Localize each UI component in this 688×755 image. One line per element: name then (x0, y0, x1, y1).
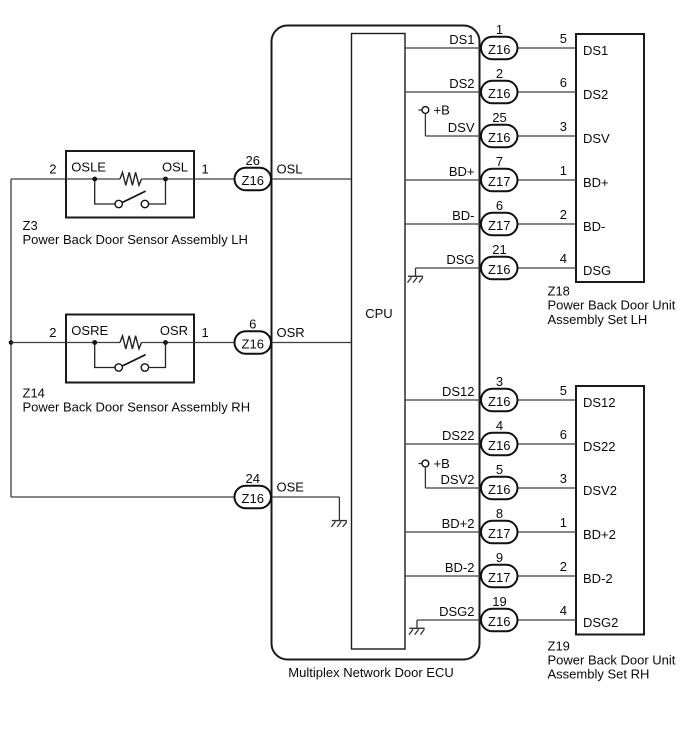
svg-text:25: 25 (492, 110, 506, 125)
svg-text:26: 26 (246, 153, 260, 168)
svg-text:7: 7 (496, 154, 503, 169)
svg-text:Multiplex Network Door ECU: Multiplex Network Door ECU (288, 665, 453, 680)
svg-text:DSV: DSV (448, 120, 475, 135)
svg-text:Z14: Z14 (23, 386, 45, 401)
svg-text:+B: +B (434, 103, 450, 118)
svg-text:DS2: DS2 (583, 87, 608, 102)
svg-text:OSL: OSL (162, 160, 188, 175)
svg-text:BD-: BD- (452, 208, 474, 223)
svg-text:Z16: Z16 (488, 86, 510, 101)
svg-text:DSG: DSG (583, 263, 611, 278)
svg-text:OSL: OSL (277, 162, 303, 177)
svg-text:DS12: DS12 (442, 384, 475, 399)
svg-text:Z3: Z3 (23, 218, 38, 233)
svg-text:1: 1 (202, 162, 209, 177)
svg-text:DS22: DS22 (442, 428, 475, 443)
svg-text:Z17: Z17 (488, 174, 510, 189)
svg-text:OSE: OSE (277, 480, 305, 495)
svg-text:5: 5 (496, 462, 503, 477)
svg-text:Z16: Z16 (488, 394, 510, 409)
svg-text:Z17: Z17 (488, 218, 510, 233)
svg-text:DS1: DS1 (583, 43, 608, 58)
svg-text:1: 1 (202, 325, 209, 340)
svg-text:Z16: Z16 (242, 173, 264, 188)
svg-text:6: 6 (249, 316, 256, 331)
svg-text:OSR: OSR (277, 325, 305, 340)
svg-text:5: 5 (560, 31, 567, 46)
svg-text:3: 3 (560, 471, 567, 486)
svg-text:4: 4 (560, 603, 567, 618)
svg-text:DS22: DS22 (583, 439, 616, 454)
svg-text:CPU: CPU (365, 306, 392, 321)
svg-text:2: 2 (49, 162, 56, 177)
svg-text:Z16: Z16 (488, 262, 510, 277)
svg-text:BD+2: BD+2 (583, 527, 616, 542)
svg-text:Z16: Z16 (488, 42, 510, 57)
svg-text:BD-2: BD-2 (583, 571, 613, 586)
svg-text:Z16: Z16 (488, 614, 510, 629)
svg-text:BD-2: BD-2 (445, 560, 475, 575)
svg-text:DS1: DS1 (449, 32, 474, 47)
svg-text:DSV: DSV (583, 131, 610, 146)
svg-text:BD+2: BD+2 (442, 516, 475, 531)
svg-text:19: 19 (492, 594, 506, 609)
svg-text:24: 24 (246, 471, 260, 486)
svg-text:2: 2 (560, 559, 567, 574)
svg-text:Z16: Z16 (488, 482, 510, 497)
svg-text:3: 3 (560, 119, 567, 134)
svg-text:DS12: DS12 (583, 395, 616, 410)
svg-text:5: 5 (560, 383, 567, 398)
svg-text:9: 9 (496, 550, 503, 565)
svg-text:1: 1 (560, 515, 567, 530)
svg-text:Z16: Z16 (242, 491, 264, 506)
svg-text:DSG2: DSG2 (439, 604, 474, 619)
svg-text:OSR: OSR (160, 323, 188, 338)
svg-text:8: 8 (496, 506, 503, 521)
svg-text:Z17: Z17 (488, 526, 510, 541)
svg-text:Z17: Z17 (488, 570, 510, 585)
svg-text:Power Back Door Sensor Assembl: Power Back Door Sensor Assembly LH (23, 232, 248, 247)
svg-text:4: 4 (496, 418, 503, 433)
svg-text:2: 2 (560, 207, 567, 222)
svg-text:DS2: DS2 (449, 76, 474, 91)
svg-text:6: 6 (560, 427, 567, 442)
svg-text:Power Back Door Sensor Assembl: Power Back Door Sensor Assembly RH (23, 399, 251, 414)
svg-text:BD-: BD- (583, 219, 605, 234)
svg-text:Z16: Z16 (242, 336, 264, 351)
svg-text:BD+: BD+ (583, 175, 609, 190)
svg-text:6: 6 (496, 198, 503, 213)
svg-text:OSRE: OSRE (71, 323, 108, 338)
svg-text:Z16: Z16 (488, 438, 510, 453)
svg-text:DSG: DSG (446, 252, 474, 267)
svg-text:DSV2: DSV2 (583, 483, 617, 498)
svg-text:21: 21 (492, 242, 506, 257)
svg-text:DSG2: DSG2 (583, 615, 618, 630)
svg-text:4: 4 (560, 251, 567, 266)
svg-text:1: 1 (560, 163, 567, 178)
svg-text:3: 3 (496, 374, 503, 389)
svg-text:Z16: Z16 (488, 130, 510, 145)
svg-text:2: 2 (49, 325, 56, 340)
svg-text:OSLE: OSLE (71, 160, 106, 175)
svg-text:DSV2: DSV2 (441, 472, 475, 487)
svg-text:+B: +B (434, 456, 450, 471)
svg-text:6: 6 (560, 75, 567, 90)
svg-text:BD+: BD+ (449, 164, 475, 179)
svg-text:1: 1 (496, 22, 503, 37)
svg-text:2: 2 (496, 66, 503, 81)
